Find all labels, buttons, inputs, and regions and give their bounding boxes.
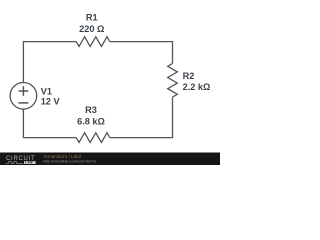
wire top-right bbox=[110, 42, 173, 64]
wire bottom-left bbox=[23, 109, 76, 137]
resistor R2 bbox=[168, 64, 178, 98]
svg-text:V1: V1 bbox=[41, 86, 52, 96]
resistor R1 bbox=[76, 37, 110, 47]
wire right-bottom bbox=[110, 97, 173, 138]
svg-text:220 Ω: 220 Ω bbox=[79, 24, 104, 34]
V1 minus sign bbox=[18, 102, 28, 104]
svg-text:R3: R3 bbox=[85, 105, 97, 115]
wire left+top bbox=[23, 42, 76, 83]
CircuitLab logo wave bbox=[6, 162, 24, 164]
resistor R3 bbox=[76, 133, 110, 143]
svg-text:12 V: 12 V bbox=[41, 97, 61, 107]
CircuitLab logo LAB box bbox=[24, 161, 36, 164]
wire loop with resistor zigzags bbox=[23, 37, 177, 143]
svg-text:6.8 kΩ: 6.8 kΩ bbox=[77, 117, 105, 127]
svg-text:2.2 kΩ: 2.2 kΩ bbox=[183, 82, 211, 92]
footer bar bbox=[0, 153, 220, 166]
svg-text:R2: R2 bbox=[183, 71, 195, 81]
voltage source V1 bbox=[10, 83, 37, 110]
svg-text:R1: R1 bbox=[86, 12, 98, 22]
svg-text:LAB: LAB bbox=[25, 161, 33, 165]
svg-text:http://circuitlab.com/c/am5v7w: http://circuitlab.com/c/am5v7w bbox=[43, 158, 96, 163]
V1 plus sign bbox=[19, 86, 29, 96]
